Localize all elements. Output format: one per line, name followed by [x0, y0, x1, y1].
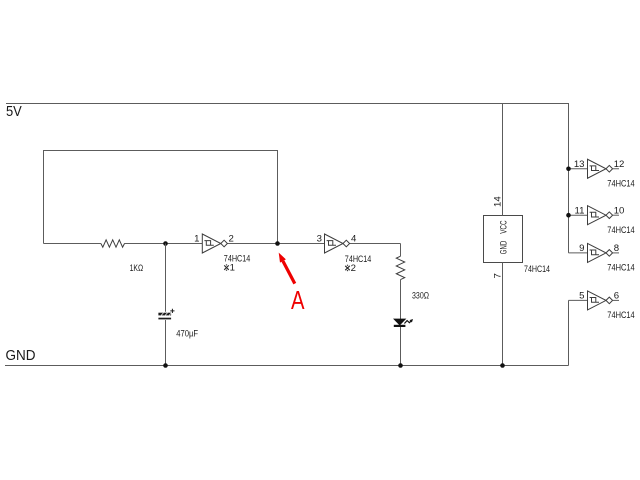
svg-text:13: 13 [574, 159, 585, 170]
svg-text:10: 10 [614, 205, 625, 216]
junction node gate13 input (568.5,168.75) [566, 166, 571, 171]
svg-text:1KΩ: 1KΩ [130, 263, 144, 274]
svg-text:VCC: VCC [499, 220, 510, 233]
svg-text:5V: 5V [6, 103, 22, 120]
op-amp U1 inverter gate 1 (74HC14) [202, 234, 227, 253]
resistor R2 330Ω (vertical) [396, 256, 404, 279]
resistor R1 1KΩ [101, 240, 125, 247]
op-amp spare gate pins 13/12 (74HC14) [569, 159, 620, 178]
svg-text:6: 6 [614, 291, 619, 302]
junction node at resistor/capacitor (165,243.5) [163, 241, 168, 246]
wire capacitor branch vertical x=165 [165, 244, 167, 312]
svg-text:1: 1 [230, 262, 235, 273]
annotation red arrow to node A [279, 253, 295, 284]
capacitor C1 470µF (electrolytic) [158, 309, 174, 320]
svg-text:330Ω: 330Ω [412, 291, 429, 302]
svg-text:5: 5 [579, 291, 584, 302]
wire 5V power rail [6, 103, 569, 105]
wire right vertical tie-low x=568.5 (GND to gate5 input) [568, 300, 570, 365]
op-amp spare gate pins 9/8 (74HC14) [569, 243, 620, 262]
op-amp spare gate pins 5/6 (74HC14) [569, 291, 620, 310]
op-amp U2 inverter gate 2 (74HC14) [325, 234, 350, 253]
LED D1 [394, 319, 413, 326]
svg-text:74HC14: 74HC14 [607, 225, 635, 236]
reference mark ※1 (gate 1) [224, 262, 235, 273]
svg-text:74HC14: 74HC14 [224, 253, 251, 264]
svg-text:2: 2 [229, 234, 234, 245]
svg-text:74HC14: 74HC14 [607, 263, 635, 274]
junction node gate11 input (568.5,215.2) [566, 213, 571, 218]
wire VCC pin 14 vertical [502, 104, 504, 216]
junction node capacitor to GND (165,365.5) [163, 363, 168, 368]
svg-text:14: 14 [493, 196, 504, 207]
op-amp spare gate pins 11/10 (74HC14) [569, 206, 620, 225]
svg-text:74HC14: 74HC14 [524, 264, 550, 275]
junction node LED to GND (400.5,365.5) [398, 363, 403, 368]
svg-text:4: 4 [351, 234, 357, 245]
IC U1 power block 74HC14 [484, 216, 523, 263]
svg-text:1: 1 [194, 234, 199, 245]
svg-text:74HC14: 74HC14 [345, 254, 372, 265]
svg-text:A: A [291, 285, 305, 315]
junction node A (277.5,243.5) [275, 241, 280, 246]
wire GND power rail [5, 365, 569, 367]
wire main horizontal net at y=243.5 [44, 243, 101, 245]
svg-text:2: 2 [351, 263, 356, 274]
svg-text:74HC14: 74HC14 [607, 179, 635, 190]
svg-text:11: 11 [575, 205, 585, 216]
wire right vertical tie-high x=568.5 (5V to spare inputs) [568, 103, 570, 253]
reference mark ※2 (gate 2) [345, 263, 356, 274]
svg-text:12: 12 [614, 159, 625, 170]
svg-text:GND: GND [6, 347, 36, 364]
junction node IC GND to rail (502.7,365.5) [500, 363, 505, 368]
svg-text:470µF: 470µF [176, 329, 198, 340]
wire feedback loop (top/left/right of rectangle) [44, 151, 278, 244]
svg-text:74HC14: 74HC14 [607, 310, 635, 321]
svg-text:GND: GND [499, 241, 510, 254]
svg-text:7: 7 [493, 273, 504, 278]
wire GND pin 7 vertical [502, 263, 504, 366]
svg-text:9: 9 [579, 243, 584, 254]
svg-text:3: 3 [317, 234, 322, 245]
svg-text:8: 8 [614, 243, 619, 254]
wire LED branch vertical x=400 [400, 244, 402, 257]
